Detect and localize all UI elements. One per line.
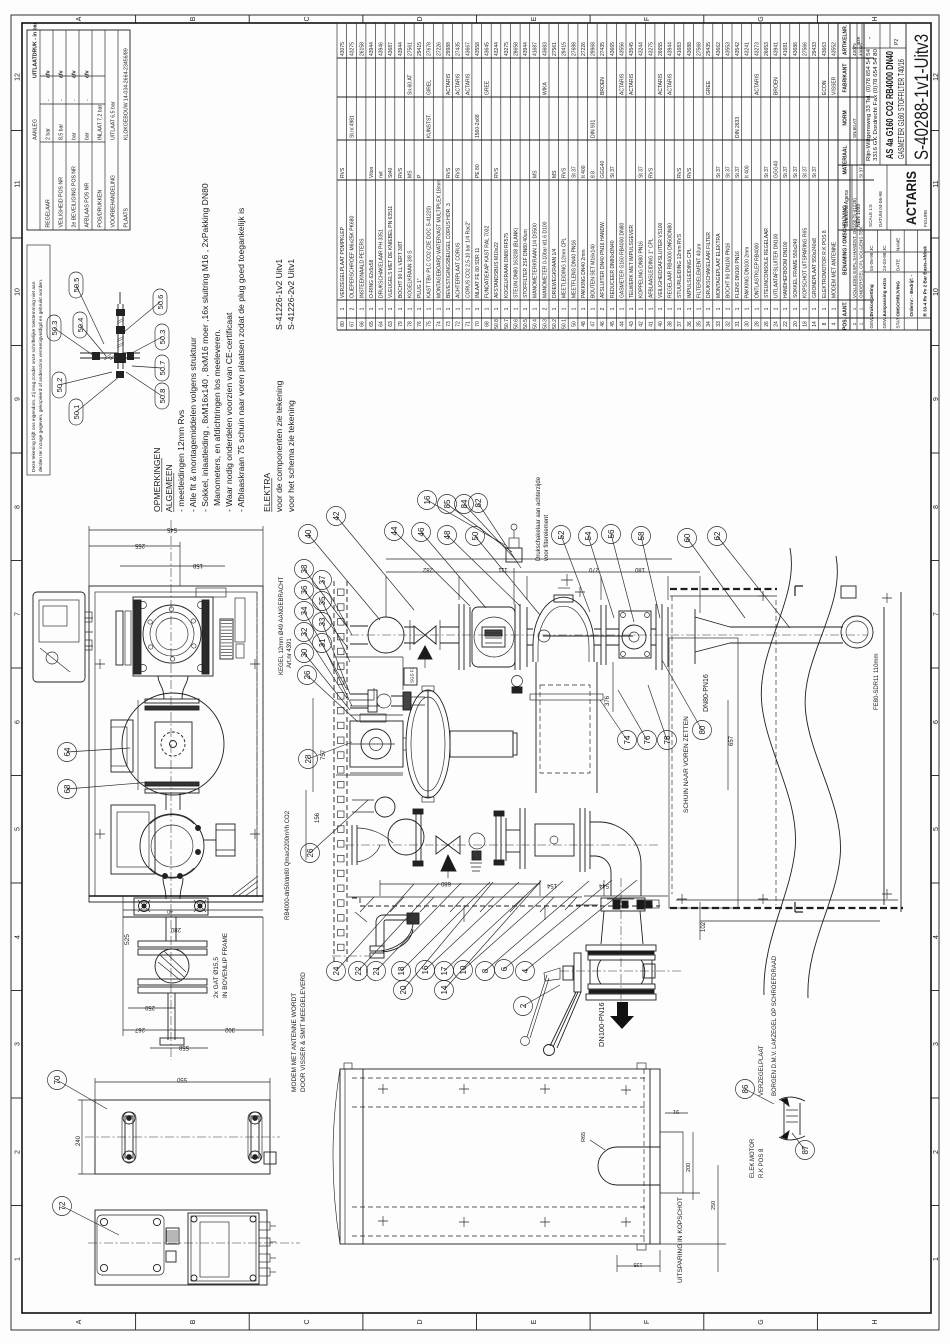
- svg-text:REGELAAR: REGELAAR: [45, 199, 51, 228]
- svg-text:1: 1: [774, 307, 780, 310]
- svg-text:1: 1: [852, 307, 857, 310]
- svg-text:31: 31: [735, 321, 741, 327]
- lower outlet pipe run: [345, 844, 660, 846]
- svg-text:RVS: RVS: [398, 167, 404, 178]
- settings table: [27, 30, 130, 230]
- svg-text:- Afblaaskraan 75 schuin naar: - Afblaaskraan 75 schuin naar voren plaa…: [236, 208, 246, 512]
- svg-text:8.8: 8.8: [591, 171, 597, 178]
- svg-text:KOGELKRAAN 3/8 S: KOGELKRAAN 3/8 S: [408, 250, 414, 298]
- balloon 37: [313, 571, 332, 590]
- svg-text:FABRIKANT: FABRIKANT: [843, 64, 849, 93]
- balloon 50.5: [69, 272, 83, 298]
- svg-text:MS: MS: [408, 170, 414, 178]
- svg-text:St 37: St 37: [610, 166, 616, 178]
- svg-text:R 33-4 Rv Pv 2 Bar Basis-Afdru: R 33-4 Rv Pv 2 Bar Basis-Afdruk: [922, 246, 927, 317]
- svg-text:F: F: [644, 1320, 651, 1324]
- svg-text:43275: 43275: [648, 42, 654, 56]
- svg-text:FE80-SDR11 110mm: FE80-SDR11 110mm: [874, 654, 880, 710]
- svg-text:26: 26: [303, 670, 312, 679]
- svg-text:INLAAT 7,2 bar: INLAAT 7,2 bar: [97, 104, 103, 140]
- svg-text:KEGEL 12mm Ø49 AANGEBRACHT: KEGEL 12mm Ø49 AANGEBRACHT: [279, 577, 285, 675]
- svg-text:JC: JC: [869, 245, 874, 251]
- svg-text:1: 1: [485, 307, 491, 310]
- svg-text:AFSLUITER DN40 PN16 HANDW.: AFSLUITER DN40 PN16 HANDW.: [600, 221, 606, 298]
- svg-text:32: 32: [300, 627, 309, 636]
- svg-text:A: A: [76, 16, 83, 21]
- svg-text:43946: 43946: [379, 42, 385, 56]
- svg-text:376: 376: [605, 695, 611, 706]
- svg-text:43273: 43273: [754, 42, 760, 56]
- svg-text:AFBLAAS POS NR: AFBLAAS POS NR: [84, 183, 90, 228]
- detail: mounting plate: [85, 1100, 280, 1174]
- balloon 2: [514, 997, 533, 1016]
- svg-text:GASMETER G160 STOFFILTER T40/1: GASMETER G160 STOFFILTER T40/16: [896, 59, 906, 159]
- balloon 6: [495, 960, 514, 979]
- svg-text:BROEN: BROEN: [774, 77, 780, 95]
- svg-text:64: 64: [379, 321, 385, 327]
- svg-text:680: 680: [440, 880, 451, 886]
- svg-text:St 37: St 37: [803, 166, 809, 178]
- svg-text:80: 80: [698, 725, 707, 734]
- svg-text:HANDHEFBOOM DN100: HANDHEFBOOM DN100: [783, 241, 789, 298]
- svg-text:11: 11: [933, 180, 940, 187]
- balloon 48: [438, 526, 457, 545]
- svg-text:31: 31: [318, 638, 327, 647]
- gas meter top view: [116, 597, 245, 676]
- svg-text:KLOKGEBOUW 14-034-2664-23456/8: KLOKGEBOUW 14-034-2664-23456/89: [123, 48, 129, 140]
- svg-text:1: 1: [812, 307, 818, 310]
- svg-text:35: 35: [697, 321, 703, 327]
- svg-text:43665: 43665: [610, 42, 616, 56]
- svg-text:RVS: RVS: [562, 167, 568, 178]
- svg-text:D: D: [417, 16, 424, 21]
- balloon 42: [327, 507, 346, 526]
- svg-text:afv: afv: [58, 70, 64, 78]
- svg-text:1: 1: [379, 307, 385, 310]
- svg-text:REGELAAR RB4000 DN50/DN80: REGELAAR RB4000 DN50/DN80: [668, 223, 674, 298]
- svg-text:26653: 26653: [764, 42, 770, 56]
- svg-text:2 bar: 2 bar: [45, 128, 51, 140]
- svg-text:1: 1: [793, 307, 799, 310]
- svg-text:1: 1: [716, 307, 722, 310]
- svg-text:50.8: 50.8: [494, 319, 500, 329]
- svg-text:- Sokkel, inlaatleiding , 8xM1: - Sokkel, inlaatleiding , 8xM16x140 , 8x…: [200, 183, 210, 512]
- balloon 78: [658, 731, 677, 750]
- svg-text:BOCHT 90 DN100 PN16: BOCHT 90 DN100 PN16: [725, 243, 731, 298]
- filter top view: [111, 676, 224, 810]
- svg-text:TELWERK MET IMPULSGEVER: TELWERK MET IMPULSGEVER: [629, 224, 635, 298]
- svg-text:50.7: 50.7: [504, 319, 510, 329]
- balloon 86: [736, 1080, 755, 1099]
- svg-text:UITLAATAFSLUITER DN100: UITLAATAFSLUITER DN100: [774, 234, 780, 298]
- svg-text:St 37: St 37: [793, 166, 799, 178]
- svg-text:1: 1: [668, 307, 674, 310]
- balloon 33: [313, 613, 332, 632]
- svg-text:75: 75: [427, 321, 433, 327]
- svg-text:2: 2: [600, 307, 606, 310]
- svg-text:33: 33: [716, 321, 722, 327]
- balloon 50.1: [69, 399, 83, 425]
- svg-text:KOPPELING DN80 PN16: KOPPELING DN80 PN16: [639, 241, 645, 298]
- svg-text:43944: 43944: [668, 42, 674, 56]
- svg-text:72: 72: [58, 1201, 67, 1210]
- svg-text:DATE: DATE: [896, 259, 901, 271]
- svg-text:AS 4a G160 CO2 RB4000 DN40: AS 4a G160 CO2 RB4000 DN40: [884, 51, 896, 159]
- svg-text:43662: 43662: [716, 42, 722, 56]
- safety shut-off valve: [601, 604, 695, 670]
- balloon 50.4: [73, 312, 87, 338]
- svg-text:AFBLAASLEIDING 1" CPL: AFBLAASLEIDING 1" CPL: [648, 238, 654, 298]
- balloon 38: [295, 560, 314, 579]
- front view bottom rail (hidden line): [352, 898, 660, 922]
- svg-text:43542: 43542: [735, 42, 741, 56]
- svg-text:O-RING 62x5x58: O-RING 62x5x58: [369, 259, 375, 298]
- svg-text:OLIEPERSCHROEF M6x25K PK680: OLIEPERSCHROEF M6x25K PK680: [350, 216, 356, 298]
- balloon 50.7: [155, 355, 169, 381]
- svg-text:2: 2: [542, 307, 548, 310]
- svg-text:82: 82: [474, 498, 483, 507]
- svg-text:Ordernr: - Bedrijf: -: Ordernr: - Bedrijf: -: [909, 274, 914, 316]
- parts list (BOM) table: [337, 329, 874, 331]
- svg-text:St 37: St 37: [571, 166, 577, 178]
- outlet gate valve below frame: [138, 917, 207, 1045]
- svg-text:180: 180: [634, 566, 645, 572]
- svg-text:NAME: NAME: [896, 238, 901, 251]
- svg-text:1: 1: [552, 307, 558, 310]
- svg-text:14: 14: [812, 321, 818, 327]
- svg-text:St 37: St 37: [764, 166, 770, 178]
- svg-text:1: 1: [697, 307, 703, 310]
- balloon 50.2: [52, 372, 66, 398]
- balloon 36: [295, 581, 314, 600]
- svg-text:48: 48: [443, 530, 452, 539]
- svg-text:85: 85: [443, 499, 452, 508]
- svg-text:7: 7: [933, 612, 940, 616]
- svg-text:ACTARIS: ACTARIS: [754, 73, 760, 95]
- reducer and outlet pipe: [695, 616, 873, 652]
- svg-text:1: 1: [648, 307, 654, 310]
- svg-text:DRUKSCHAKELAAR FILTER: DRUKSCHAKELAAR FILTER: [706, 232, 712, 298]
- svg-text:ARTIKELNR.: ARTIKELNR.: [843, 24, 849, 55]
- svg-text:GGG40: GGG40: [774, 161, 780, 178]
- svg-text:RVS: RVS: [456, 167, 462, 178]
- svg-text:62: 62: [713, 531, 722, 540]
- svg-text:It 400: It 400: [745, 165, 751, 178]
- svg-text:1: 1: [398, 307, 404, 310]
- svg-text:45: 45: [610, 321, 616, 327]
- svg-text:11: 11: [15, 180, 22, 187]
- balloon 58: [632, 527, 651, 546]
- svg-text:VEILIGHEID POS NR: VEILIGHEID POS NR: [58, 177, 64, 228]
- svg-text:9: 9: [933, 397, 940, 401]
- svg-text:1: 1: [658, 307, 664, 310]
- svg-text:12: 12: [933, 73, 940, 81]
- balloon 72: [53, 1197, 72, 1216]
- svg-text:H: H: [872, 1319, 879, 1324]
- svg-text:156: 156: [315, 812, 321, 823]
- svg-text:BORGEN D.M.V. LAKZEGEL OP SCHR: BORGEN D.M.V. LAKZEGEL OP SCHROEFDRAAD: [772, 955, 778, 1096]
- svg-text:10: 10: [459, 965, 468, 974]
- svg-text:9: 9: [15, 397, 22, 401]
- svg-text:757: 757: [321, 749, 327, 760]
- svg-text:BROEN: BROEN: [600, 77, 606, 95]
- balloon 50: [466, 527, 485, 546]
- svg-text:10: 10: [15, 288, 22, 296]
- svg-text:8: 8: [481, 968, 490, 973]
- svg-text:G: G: [758, 1319, 765, 1324]
- svg-text:KAST TBV PLC CO2 (ZIE DOC S-41: KAST TBV PLC CO2 (ZIE DOC S-41220): [427, 206, 433, 298]
- svg-text:S-41226-1v2 Uitv1: S-41226-1v2 Uitv1: [274, 259, 284, 330]
- manifold measuring-line detail: [80, 304, 140, 369]
- svg-text:ACHTERPLAAT CORUS: ACHTERPLAAT CORUS: [456, 242, 462, 298]
- svg-text:St 37: St 37: [859, 167, 864, 178]
- svg-text:20: 20: [399, 985, 408, 994]
- svg-text:1: 1: [754, 307, 760, 310]
- balloon 30: [295, 644, 314, 663]
- svg-text:26655: 26655: [658, 42, 664, 56]
- svg-text:1: 1: [504, 307, 510, 310]
- balloon 50.3: [47, 315, 61, 341]
- svg-text:MONTAGEBOARD WATERVAST MULTIPL: MONTAGEBOARD WATERVAST MULTIPLEX 18mm: [436, 180, 442, 298]
- title block: [864, 23, 931, 330]
- svg-text:AFSTANDSBUS M10x22: AFSTANDSBUS M10x22: [494, 242, 500, 298]
- svg-text:43663: 43663: [822, 42, 828, 56]
- svg-text:- Alle fit & montagemiddelen v: - Alle fit & montagemiddelen volgens str…: [188, 337, 198, 512]
- svg-text:27226: 27226: [436, 42, 442, 56]
- svg-text:43244: 43244: [639, 42, 645, 56]
- svg-text:G: G: [758, 16, 765, 21]
- svg-text:C: C: [304, 1319, 311, 1324]
- balloon 8: [476, 962, 495, 981]
- svg-text:24: 24: [332, 966, 341, 975]
- svg-text:SGS F1: SGS F1: [410, 666, 415, 683]
- svg-text:20: 20: [793, 321, 799, 327]
- balloon 26: [301, 844, 320, 863]
- svg-text:102: 102: [701, 921, 707, 932]
- svg-text:1: 1: [340, 307, 346, 310]
- svg-text:22: 22: [354, 966, 363, 975]
- svg-text:KOPSCHOT UITSPARING R65: KOPSCHOT UITSPARING R65: [803, 228, 809, 298]
- svg-text:FUNDATIEKAP KAST RAL 7032: FUNDATIEKAP KAST RAL 7032: [485, 225, 491, 298]
- BOM row pos 1: [856, 23, 858, 330]
- balloon 85: [438, 495, 457, 514]
- svg-text:ALGEMEEN: ALGEMEEN: [164, 464, 174, 512]
- svg-text:200: 200: [686, 1163, 692, 1172]
- svg-text:68: 68: [485, 321, 491, 327]
- svg-text:STAT: STAT: [896, 317, 901, 328]
- svg-text:VISSER: VISSER: [831, 76, 837, 95]
- balloon 20: [394, 981, 413, 1000]
- balloons of outlet assembly: [336, 884, 414, 971]
- svg-text:1: 1: [533, 307, 539, 310]
- DN100 outlet valve: [560, 878, 682, 1002]
- svg-text:1: 1: [475, 307, 481, 310]
- svg-text:voor het schema zie tekening: voor het schema zie tekening: [286, 400, 296, 512]
- svg-text:41681: 41681: [783, 42, 789, 56]
- svg-text:DOOR VISSER & SMIT MEEGELEVERD: DOOR VISSER & SMIT MEEGELEVERD: [300, 972, 307, 1092]
- svg-text:40: 40: [658, 321, 664, 327]
- svg-text:8: 8: [15, 505, 22, 509]
- regulator console bracket lines: [336, 657, 403, 775]
- svg-text:R65: R65: [581, 1132, 587, 1142]
- balloon 64: [58, 743, 77, 762]
- svg-text:MS: MS: [533, 170, 539, 178]
- svg-text:56: 56: [607, 529, 616, 538]
- svg-text:VERZEGELPLAAT POMPKLEP: VERZEGELPLAAT POMPKLEP: [340, 226, 346, 298]
- svg-text:79: 79: [398, 321, 404, 327]
- svg-text:43275: 43275: [350, 42, 356, 56]
- svg-text:66: 66: [359, 321, 365, 327]
- top run pipe walls: [404, 627, 656, 645]
- svg-text:H: H: [872, 16, 879, 21]
- svg-text:ELEKTROMOTOR R.K POS 8: ELEKTROMOTOR R.K POS 8: [822, 230, 828, 298]
- svg-text:ECON: ECON: [822, 80, 828, 95]
- svg-text:65: 65: [369, 321, 375, 327]
- svg-text:-: -: [71, 99, 77, 101]
- svg-text:50.3: 50.3: [542, 319, 548, 329]
- svg-text:26: 26: [764, 321, 770, 327]
- svg-text:WIKA: WIKA: [542, 82, 548, 95]
- svg-text:bar: bar: [71, 132, 77, 140]
- svg-text:37: 37: [318, 575, 327, 584]
- svg-text:12: 12: [15, 73, 22, 81]
- svg-text:43944: 43944: [369, 42, 375, 56]
- svg-text:18: 18: [803, 321, 809, 327]
- svg-text:- Waar nodig onderdelen voorzi: - Waar nodig onderdelen voorzien van CE-…: [224, 312, 234, 512]
- svg-text:B: B: [190, 1319, 197, 1324]
- svg-text:50: 50: [571, 321, 577, 327]
- svg-text:46: 46: [417, 527, 426, 536]
- svg-text:8,5 bar: 8,5 bar: [58, 124, 64, 140]
- rear support frame: [669, 586, 903, 921]
- svg-text:DN80-PN16: DN80-PN16: [703, 674, 710, 712]
- svg-text:It 400: It 400: [581, 165, 587, 178]
- svg-text:AANLEG: AANLEG: [32, 119, 38, 140]
- svg-text:3: 3: [15, 1042, 22, 1046]
- svg-text:SCALE 1:5: SCALE 1:5: [868, 204, 873, 227]
- svg-text:29968: 29968: [591, 42, 597, 56]
- balloon 28: [299, 750, 318, 769]
- svg-text:71: 71: [465, 321, 471, 327]
- svg-text:-: -: [45, 99, 51, 101]
- svg-text:S-41226-2v2 Uitv1: S-41226-2v2 Uitv1: [286, 259, 296, 330]
- svg-text:4: 4: [933, 935, 940, 939]
- svg-text:270: 270: [588, 566, 599, 572]
- svg-text:NEN 1099: NEN 1099: [856, 204, 862, 227]
- svg-text:E: E: [531, 16, 538, 21]
- svg-text:8: 8: [822, 322, 828, 325]
- svg-text:4: 4: [521, 968, 530, 973]
- svg-text:1: 1: [571, 307, 577, 310]
- svg-text:1: 1: [629, 307, 635, 310]
- base line hatching: [348, 897, 582, 912]
- svg-text:1: 1: [494, 307, 500, 310]
- svg-text:MANOMETERKRAAN 1/4 DS500: MANOMETERKRAAN 1/4 DS500: [533, 223, 539, 298]
- svg-text:1: 1: [859, 322, 864, 325]
- svg-text:43552: 43552: [831, 42, 837, 56]
- svg-text:1: 1: [427, 307, 433, 310]
- svg-text:28: 28: [304, 754, 313, 763]
- svg-text:50.5: 50.5: [523, 319, 529, 329]
- svg-text:GGG40: GGG40: [600, 161, 606, 178]
- svg-text:St 37: St 37: [735, 166, 741, 178]
- outlet elbow down: [584, 822, 668, 896]
- svg-text:GASMETER G160 RB4000 DN80: GASMETER G160 RB4000 DN80: [619, 222, 625, 298]
- rear panel outline: [669, 638, 738, 908]
- balloon 84: [455, 495, 474, 514]
- svg-text:DIN 931: DIN 931: [591, 119, 597, 138]
- svg-text:255: 255: [134, 542, 145, 548]
- svg-text:Drukomzetting: Drukomzetting: [869, 284, 874, 316]
- balloon 24: [327, 962, 346, 981]
- svg-text:37: 37: [677, 321, 683, 327]
- svg-text:46: 46: [600, 321, 606, 327]
- svg-text:34: 34: [300, 606, 309, 615]
- svg-text:UITLAAT 6,5 bar: UITLAAT 6,5 bar: [110, 101, 116, 140]
- svg-text:VEILIGHEIDSAFSLUITER VS100: VEILIGHEIDSAFSLUITER VS100: [658, 222, 664, 298]
- svg-text:43645: 43645: [485, 42, 491, 56]
- svg-text:1: 1: [562, 307, 568, 310]
- svg-text:43244: 43244: [494, 42, 500, 56]
- svg-text:2: 2: [933, 1150, 940, 1154]
- svg-text:1: 1: [725, 307, 731, 310]
- svg-text:BOUTEN SET M16x140: BOUTEN SET M16x140: [591, 244, 597, 298]
- BOM row pos 2: [849, 23, 851, 330]
- svg-text:RVS: RVS: [340, 167, 346, 178]
- svg-text:29415: 29415: [562, 42, 568, 56]
- svg-text:158: 158: [192, 562, 203, 568]
- balloon 31: [313, 634, 332, 653]
- svg-text:302: 302: [224, 1026, 235, 1032]
- balloon 32: [295, 623, 314, 642]
- svg-text:43687: 43687: [388, 42, 394, 56]
- svg-text:27561: 27561: [408, 42, 414, 56]
- svg-text:VOORBEHANDELING: VOORBEHANDELING: [110, 175, 116, 227]
- svg-text:1: 1: [436, 307, 442, 310]
- svg-text:52: 52: [557, 530, 566, 539]
- pressure switch instrument: [506, 524, 522, 604]
- svg-text:30: 30: [745, 321, 751, 327]
- balloon 16: [418, 491, 437, 510]
- svg-text:Rijn-Wiltgensweg 33 Tel. (0)7: Rijn-Wiltgensweg 33 Tel. (0)78 654 54 54: [866, 49, 872, 161]
- svg-text:38: 38: [300, 564, 309, 573]
- svg-text:REDUCEER DN80xDN40: REDUCEER DN80xDN40: [610, 240, 616, 298]
- svg-text:MEETFLENS DN40 PN16: MEETFLENS DN40 PN16: [571, 240, 577, 298]
- svg-text:bar: bar: [84, 132, 90, 140]
- svg-text:1: 1: [706, 307, 712, 310]
- svg-text:78: 78: [408, 321, 414, 327]
- svg-text:91: 91: [673, 1108, 679, 1114]
- svg-text:50.4: 50.4: [533, 319, 539, 329]
- svg-text:STEUN DN80 163208 (BLANK): STEUN DN80 163208 (BLANK): [514, 227, 520, 298]
- svg-text:R.K POS 8: R.K POS 8: [759, 1148, 765, 1178]
- balloon 68: [58, 780, 77, 799]
- svg-text:86: 86: [741, 1084, 750, 1093]
- svg-text:43241: 43241: [745, 42, 751, 56]
- svg-text:2: 2: [519, 1003, 528, 1008]
- dimension chain of front view: [386, 559, 700, 617]
- svg-text:135: 135: [633, 1261, 642, 1267]
- svg-text:40: 40: [167, 908, 173, 914]
- svg-text:IMPULSLEIDING CPL: IMPULSLEIDING CPL: [687, 248, 693, 298]
- svg-text:43558: 43558: [475, 42, 481, 56]
- svg-text:AANT.: AANT.: [843, 301, 849, 316]
- svg-text:Aanpassing extra: Aanpassing extra: [882, 278, 887, 317]
- svg-text:MODEM MET ANTENNE WORDT: MODEM MET ANTENNE WORDT: [291, 993, 298, 1092]
- svg-text:27435: 27435: [600, 42, 606, 56]
- balloon 87: [796, 1141, 815, 1160]
- svg-text:St 37: St 37: [783, 166, 789, 178]
